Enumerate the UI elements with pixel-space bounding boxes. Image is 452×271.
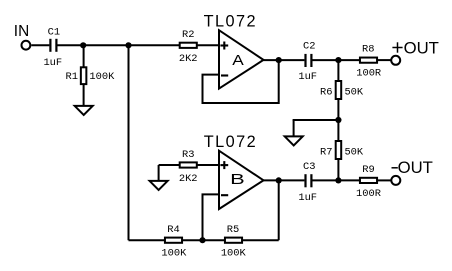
svg-text:OUT: OUT xyxy=(404,40,439,58)
svg-text:2K2: 2K2 xyxy=(179,53,198,65)
svg-text:50K: 50K xyxy=(344,87,363,99)
svg-text:C2: C2 xyxy=(303,41,315,53)
svg-text:100K: 100K xyxy=(89,71,115,83)
svg-text:TL072: TL072 xyxy=(204,133,256,151)
svg-text:R2: R2 xyxy=(182,29,194,41)
svg-text:OUT: OUT xyxy=(398,159,433,177)
svg-text:B: B xyxy=(230,172,245,188)
svg-text:100K: 100K xyxy=(221,248,247,260)
svg-text:A: A xyxy=(232,53,244,69)
svg-text:1uF: 1uF xyxy=(43,57,62,69)
svg-text:C3: C3 xyxy=(303,161,315,173)
svg-text:100R: 100R xyxy=(356,188,381,200)
svg-text:IN: IN xyxy=(14,23,29,40)
svg-text:R7: R7 xyxy=(320,147,332,159)
svg-text:R9: R9 xyxy=(362,164,374,176)
svg-text:R8: R8 xyxy=(362,44,374,56)
svg-text:R1: R1 xyxy=(66,71,78,83)
svg-text:R4: R4 xyxy=(167,224,179,236)
svg-text:C1: C1 xyxy=(48,27,60,39)
svg-text:1uF: 1uF xyxy=(298,71,317,83)
svg-text:R3: R3 xyxy=(182,149,194,161)
svg-text:100R: 100R xyxy=(356,67,381,79)
svg-text:R6: R6 xyxy=(320,87,332,99)
svg-text:50K: 50K xyxy=(344,147,363,159)
svg-text:2K2: 2K2 xyxy=(179,173,198,185)
svg-text:1uF: 1uF xyxy=(298,192,317,204)
svg-text:TL072: TL072 xyxy=(204,13,256,31)
svg-text:R5: R5 xyxy=(227,224,239,236)
svg-text:100K: 100K xyxy=(161,248,187,260)
